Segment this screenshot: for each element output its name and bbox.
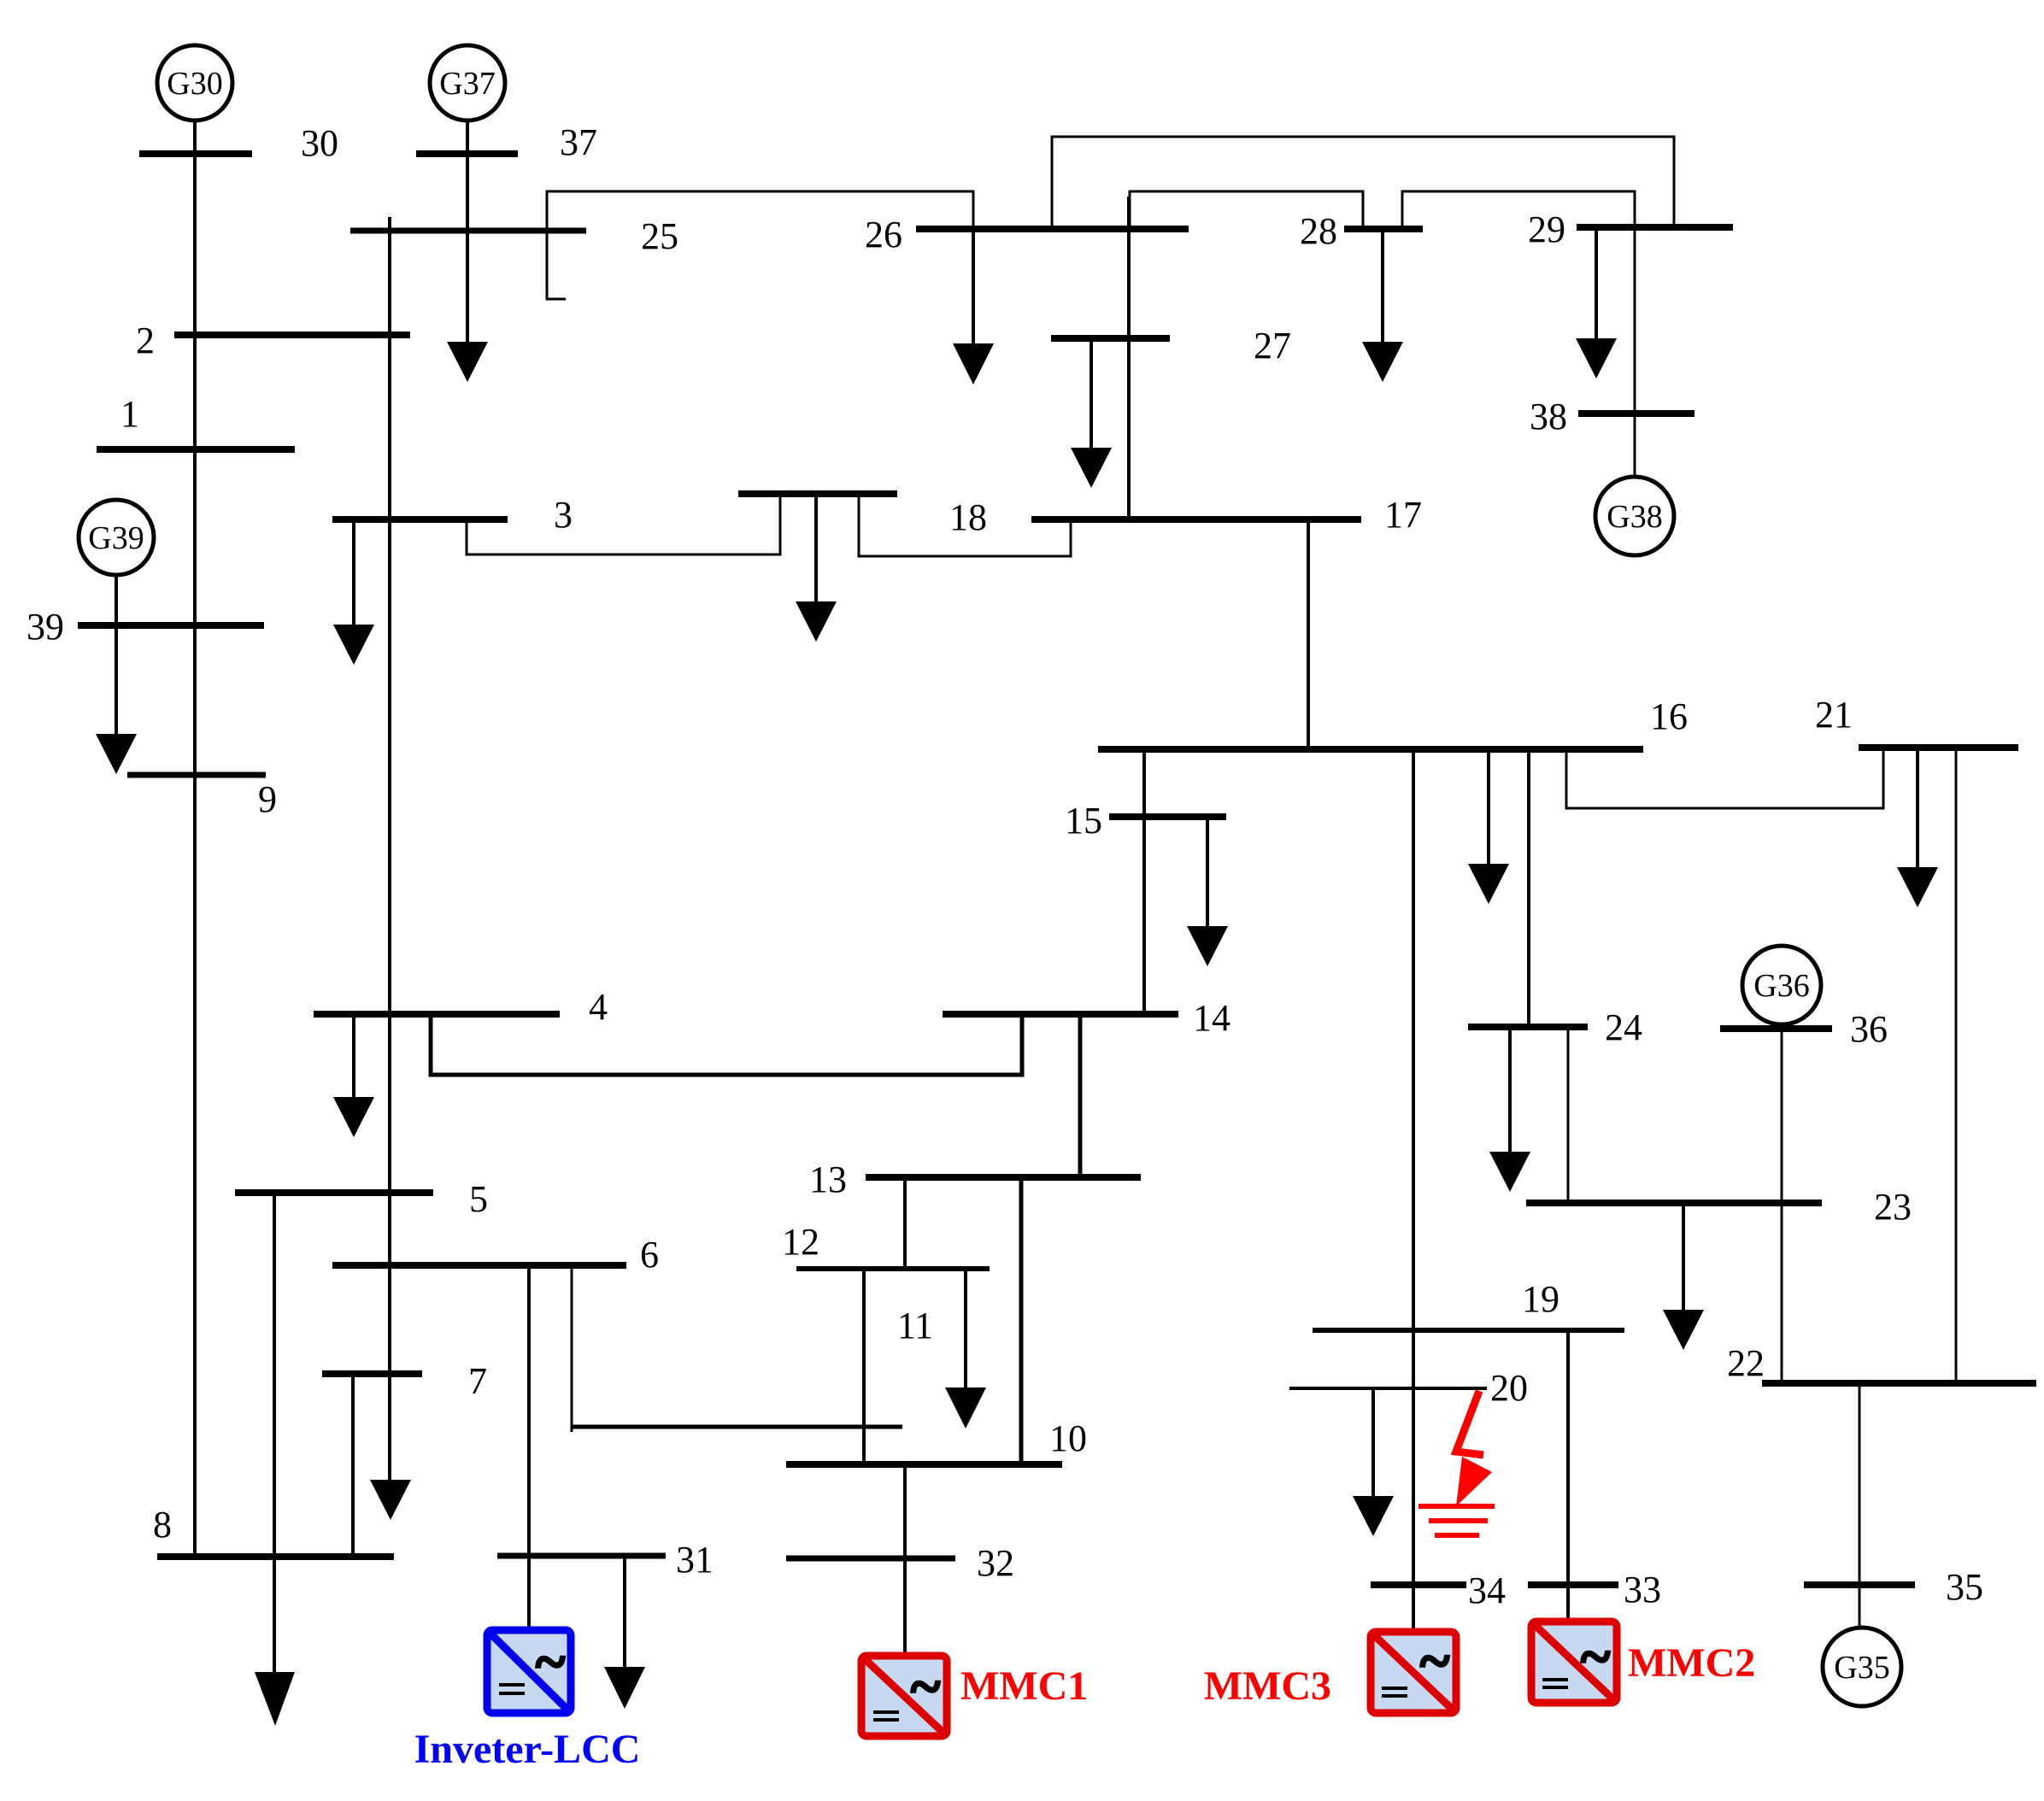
wire 17-18 (859, 494, 1071, 556)
svg-text:20: 20 (1490, 1367, 1528, 1409)
wire G37-37-25 (466, 120, 469, 343)
bus 17 (1031, 516, 1361, 523)
svg-text:2: 2 (136, 320, 155, 361)
wire 16-15-14 (1142, 749, 1146, 1014)
svg-text:MMC3: MMC3 (1204, 1663, 1331, 1709)
load at bus 23 (1663, 1203, 1704, 1350)
fault lightning at bus 20 (1456, 1391, 1492, 1506)
svg-text:3: 3 (554, 494, 573, 536)
svg-text:5: 5 (469, 1178, 488, 1220)
bus 12 (796, 1266, 990, 1271)
wire 26-29 (1052, 137, 1674, 229)
svg-text:34: 34 (1468, 1569, 1506, 1611)
converter Inverter-LCC box (487, 1630, 571, 1713)
wire 13-10 (1019, 1177, 1024, 1464)
svg-text:~: ~ (1420, 1630, 1449, 1692)
converter MMC2 box (1531, 1622, 1617, 1703)
bus 6 (332, 1262, 626, 1269)
bus 26 (916, 226, 1189, 232)
svg-text:26: 26 (865, 214, 902, 255)
bus 22 (1762, 1380, 2036, 1387)
svg-text:MMC1: MMC1 (960, 1663, 1088, 1709)
bus 31 (497, 1553, 666, 1559)
load at bus 25 (447, 342, 488, 382)
svg-text:G35: G35 (1834, 1650, 1889, 1686)
bus 18 (738, 490, 897, 497)
svg-text:~: ~ (1581, 1626, 1610, 1688)
bus 8 (157, 1553, 394, 1560)
bus 37 (416, 150, 518, 157)
svg-text:~: ~ (536, 1631, 565, 1693)
bus 14 (943, 1011, 1178, 1018)
load at bus 4 (333, 1014, 374, 1137)
load at bus 12 (945, 1269, 986, 1428)
svg-text:1: 1 (120, 393, 139, 435)
svg-text:6: 6 (640, 1234, 659, 1276)
bus 7 (322, 1370, 422, 1377)
load at bus 7 (370, 1480, 411, 1520)
svg-text:36: 36 (1850, 1008, 1888, 1050)
svg-text:30: 30 (301, 122, 338, 164)
load at bus 15 (1187, 817, 1228, 966)
svg-text:16: 16 (1650, 695, 1688, 737)
bus 30 (139, 150, 252, 157)
svg-text:37: 37 (560, 121, 597, 163)
svg-text:21: 21 (1815, 694, 1853, 736)
generator G36 (1742, 946, 1821, 1024)
load at bus 28 (1362, 229, 1403, 382)
generator G35 (1823, 1628, 1901, 1706)
wire 10-32-MMC1 (903, 1464, 907, 1656)
wire 22-35-G35 (1859, 1383, 1861, 1628)
bus 5 (235, 1189, 433, 1196)
load at bus 21 (1897, 748, 1938, 907)
wire 16-19-20-34-MMC3 (1412, 749, 1415, 1630)
bus 28 (1344, 226, 1423, 232)
load at bus 27 (1071, 338, 1112, 488)
load at bus 20 (1353, 1388, 1394, 1536)
wire 16-17 (1307, 519, 1310, 749)
svg-text:32: 32 (977, 1542, 1014, 1584)
bus 3 (332, 516, 508, 523)
generator G39 (79, 500, 154, 575)
wire 25-26 (547, 191, 973, 232)
svg-text:~: ~ (911, 1656, 940, 1718)
converter MMC1 box (861, 1656, 947, 1736)
bus 39 (78, 622, 264, 629)
generator G38 (1595, 477, 1674, 555)
load at bus 18 (796, 494, 837, 642)
bus 16 (1098, 746, 1643, 753)
bus 21 (1859, 744, 2018, 751)
ground (fault) (1418, 1506, 1495, 1535)
bus 27 (1051, 335, 1170, 342)
generator G30 (157, 45, 232, 120)
wire 2-25-3-4-5-7 chain (388, 217, 391, 1481)
bus 32 (786, 1556, 955, 1562)
load at bus 3 (333, 519, 374, 665)
wire 12-11-10 (862, 1269, 866, 1464)
svg-text:12: 12 (782, 1221, 819, 1263)
wire stub below bus 25 (547, 231, 566, 299)
bus 20 (1289, 1387, 1487, 1390)
wire 5-8 and load at bus 8 (255, 1193, 295, 1726)
svg-text:15: 15 (1065, 800, 1102, 842)
wire 21-22 (1955, 748, 1958, 1383)
svg-text:11: 11 (897, 1305, 933, 1346)
wire 7-8 (351, 1374, 355, 1557)
svg-text:25: 25 (641, 215, 678, 257)
bus 9 (127, 772, 266, 778)
svg-text:23: 23 (1874, 1186, 1912, 1228)
svg-text:38: 38 (1530, 396, 1567, 437)
svg-text:G37: G37 (439, 66, 495, 102)
svg-text:17: 17 (1384, 494, 1422, 536)
bus 23 (1526, 1200, 1822, 1206)
bus 24 (1468, 1024, 1588, 1030)
bus 34 (1371, 1581, 1466, 1588)
bus 38 (1578, 410, 1695, 417)
svg-text:4: 4 (589, 986, 608, 1028)
wire G39-39 and load at bus 39 (96, 575, 137, 774)
svg-text:27: 27 (1254, 325, 1291, 367)
bus 33 (1528, 1581, 1618, 1588)
bus 35 (1804, 1581, 1915, 1588)
svg-text:18: 18 (949, 496, 987, 538)
bus 29 (1577, 224, 1733, 231)
bus 1 (97, 446, 295, 453)
bus 4 (314, 1011, 560, 1018)
svg-text:35: 35 (1946, 1566, 1983, 1608)
svg-text:29: 29 (1528, 208, 1565, 250)
wire 13-12 (903, 1177, 907, 1269)
generator G37 (430, 45, 505, 120)
wire 24-23 (1567, 1027, 1570, 1203)
bus 25 (350, 228, 586, 234)
svg-text:Inveter-LCC: Inveter-LCC (414, 1727, 641, 1772)
svg-text:G39: G39 (88, 520, 144, 556)
wire 6-11 (571, 1265, 573, 1432)
bus 11 (571, 1425, 902, 1429)
svg-text:13: 13 (809, 1159, 847, 1200)
svg-text:24: 24 (1605, 1006, 1642, 1048)
bus 2 (174, 331, 410, 338)
converter MMC3 box (1371, 1630, 1456, 1713)
svg-text:33: 33 (1624, 1569, 1661, 1610)
load at bus 16 (1468, 749, 1509, 904)
svg-text:G38: G38 (1606, 499, 1662, 535)
svg-text:G30: G30 (167, 66, 222, 102)
bus 19 (1313, 1328, 1624, 1333)
svg-text:9: 9 (258, 778, 277, 820)
wire 3-18 (467, 494, 780, 554)
wire 4-14 (431, 1014, 1022, 1075)
wire 6-31-LCC (527, 1265, 531, 1630)
svg-text:22: 22 (1727, 1342, 1765, 1384)
load at bus 31 (604, 1556, 645, 1709)
wire 16-24 (1527, 749, 1530, 1027)
wire 28-29-38-G38 (1402, 191, 1635, 477)
wire 26-27-17 (1127, 197, 1131, 519)
svg-text:14: 14 (1193, 997, 1231, 1039)
svg-text:31: 31 (676, 1539, 714, 1581)
bus 10 (786, 1461, 1062, 1468)
bus 15 (1109, 813, 1226, 820)
svg-text:28: 28 (1300, 210, 1337, 252)
svg-text:19: 19 (1522, 1278, 1559, 1320)
bus 36 (1720, 1025, 1832, 1032)
svg-text:10: 10 (1049, 1417, 1087, 1459)
svg-text:39: 39 (26, 606, 64, 648)
wire G30-30-2-1-39-9-8 (193, 120, 197, 1557)
load at bus 26 (953, 229, 994, 384)
load at bus 29 (1576, 227, 1617, 378)
svg-text:7: 7 (468, 1360, 487, 1402)
bus 13 (866, 1174, 1141, 1181)
svg-text:8: 8 (153, 1504, 172, 1546)
wire 14-13 (1078, 1014, 1083, 1177)
wire 26-28 (1130, 191, 1363, 229)
wire G36-36-23-22 (1781, 1024, 1783, 1383)
svg-text:G36: G36 (1753, 968, 1809, 1004)
load at bus 24 (1489, 1027, 1530, 1192)
wire 16-21 (1566, 748, 1883, 808)
svg-text:MMC2: MMC2 (1628, 1640, 1755, 1686)
wire 19-33-MMC2 (1566, 1330, 1570, 1622)
